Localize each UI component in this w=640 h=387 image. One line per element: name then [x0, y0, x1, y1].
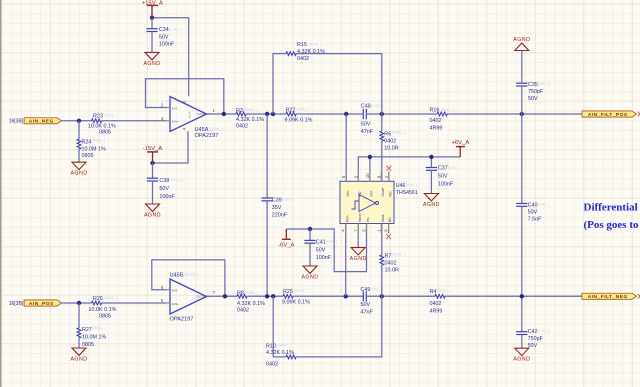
- svg-text:0805: 0805: [99, 313, 111, 319]
- svg-text:0402: 0402: [297, 56, 309, 62]
- svg-text:750pF: 750pF: [528, 89, 544, 95]
- svg-text:(C09_.): (C09_.): [538, 329, 549, 333]
- svg-text:0805: 0805: [82, 153, 94, 159]
- junction U45B output node: [223, 294, 227, 298]
- svg-text:(R046_.): (R046_.): [244, 108, 257, 112]
- svg-text:R8: R8: [237, 291, 244, 297]
- svg-text:C48: C48: [361, 104, 371, 110]
- ground AGND below U46 pin 7: [350, 248, 367, 262]
- svg-text:10.0K 0.1%: 10.0K 0.1%: [88, 123, 116, 129]
- svg-text:AGND: AGND: [423, 202, 440, 208]
- svg-text:0402: 0402: [430, 301, 442, 307]
- svg-text:IN B+: IN B+: [172, 302, 179, 306]
- svg-text:R10: R10: [266, 344, 276, 350]
- wire R4 to port AIN_FILT_NEG: [445, 295, 582, 297]
- svg-text:0402: 0402: [385, 261, 397, 267]
- svg-text:AIN_NEG: AIN_NEG: [29, 119, 54, 125]
- svg-text:OPA2197: OPA2197: [170, 316, 194, 322]
- svg-text:4R99: 4R99: [430, 308, 443, 314]
- svg-text:NC: NC: [388, 191, 392, 197]
- svg-text:4.32K 0.1%: 4.32K 0.1%: [297, 49, 325, 55]
- ground AGND below C38: [144, 204, 161, 218]
- capacitor C34: [146, 18, 182, 53]
- junction node AIN_POS: [77, 301, 81, 305]
- svg-text:(O31B_.): (O31B_.): [185, 273, 199, 277]
- svg-text:4R99: 4R99: [430, 125, 443, 131]
- wire C48 to R16: [366, 113, 437, 115]
- junction -15V_A node: [150, 161, 154, 165]
- junction Vs+ node: [368, 155, 372, 159]
- svg-text:Vs+: Vs+: [370, 190, 374, 196]
- junction node C39 bottom: [265, 294, 269, 298]
- svg-text:Vs-: Vs-: [366, 216, 370, 222]
- svg-text:+15V_A: +15V_A: [142, 0, 163, 6]
- svg-text:10.0M 1%: 10.0M 1%: [82, 146, 106, 152]
- wire R22 to C48: [296, 113, 363, 115]
- svg-text:AGND: AGND: [144, 212, 161, 218]
- svg-text:(C031_.): (C031_.): [169, 27, 182, 31]
- capacitor C39: [262, 114, 294, 296]
- svg-text:V+ V-: V+ V-: [188, 111, 192, 118]
- junction node to R10: [271, 294, 275, 298]
- svg-text:C40: C40: [528, 202, 538, 208]
- svg-text:(R046_.): (R046_.): [105, 114, 118, 118]
- svg-text:C35: C35: [528, 82, 538, 88]
- wire port AIN_NEG to R23: [62, 120, 92, 122]
- svg-text:R27: R27: [82, 327, 92, 333]
- svg-text:0402: 0402: [266, 362, 278, 368]
- wire R23 to U45A pin 3: [102, 120, 167, 122]
- port AIN_POS: [24, 300, 61, 307]
- svg-text:9.09K 0.1%: 9.09K 0.1%: [285, 118, 313, 124]
- svg-text:R6: R6: [384, 132, 391, 138]
- svg-text:0402: 0402: [384, 139, 396, 145]
- wire R25 to C49: [293, 295, 363, 297]
- svg-text:(R046_.): (R046_.): [92, 138, 105, 142]
- power +6V_A: [451, 140, 469, 157]
- svg-text:(R046_.): (R046_.): [105, 296, 118, 300]
- svg-text:(R046_.): (R046_.): [392, 253, 405, 257]
- junction node to C39: [265, 112, 269, 116]
- svg-text:IN A+: IN A+: [172, 120, 179, 124]
- svg-text:C37: C37: [438, 166, 448, 172]
- op-amp U45B OPA2197: [161, 272, 216, 322]
- wire +6V_A rail to U46 pin 3: [358, 157, 460, 181]
- capacitor C35: [516, 51, 550, 115]
- svg-text:U45B: U45B: [170, 272, 184, 278]
- wire U45B output: [207, 295, 238, 297]
- resistor R27: [77, 303, 106, 348]
- svg-text:4.32K 0.1%: 4.32K 0.1%: [266, 350, 294, 356]
- svg-text:750pF: 750pF: [528, 336, 544, 342]
- ground AGND below C34: [143, 52, 160, 66]
- svg-text:R4: R4: [430, 289, 437, 295]
- wire R26 to U45B pin 5: [102, 302, 167, 304]
- U46 pin numbers: [341, 173, 389, 232]
- junction node to U46 pin 6: [344, 112, 348, 116]
- wire C49 to R4: [366, 295, 435, 297]
- svg-text:(C08_.): (C08_.): [538, 203, 549, 207]
- svg-text:R24: R24: [82, 140, 92, 146]
- svg-text:Vocm: Vocm: [358, 213, 362, 222]
- svg-text:7.5nF: 7.5nF: [528, 216, 542, 222]
- wire U45A feedback loop: [146, 79, 224, 114]
- ground AGND below C37: [423, 194, 440, 208]
- svg-text:NC: NC: [388, 217, 392, 223]
- wire bottom rail to U46 pin 4: [345, 224, 347, 297]
- svg-text:(R046_.): (R046_.): [297, 108, 310, 112]
- svg-text:AIN_POS: AIN_POS: [29, 301, 54, 307]
- power +15V_A: [142, 0, 163, 17]
- svg-text:50V: 50V: [528, 96, 538, 102]
- svg-text:AGND: AGND: [143, 61, 160, 67]
- svg-text:Vin-: Vin-: [346, 189, 350, 196]
- svg-text:(R046_.): (R046_.): [278, 344, 291, 348]
- svg-text:10.0K 0.1%: 10.0K 0.1%: [89, 307, 117, 313]
- svg-text:50V: 50V: [438, 174, 448, 180]
- wire U46 pin 7 Vocm to ground: [357, 224, 359, 248]
- svg-text:10.0R: 10.0R: [385, 268, 399, 274]
- svg-text:9.09K 0.1%: 9.09K 0.1%: [282, 300, 310, 306]
- resistor R7: [380, 224, 405, 297]
- port AIN_FILT_POS: [582, 111, 640, 118]
- svg-text:OUT A: OUT A: [196, 112, 204, 116]
- capacitor C49: [361, 287, 383, 316]
- wire U45A output: [207, 113, 237, 115]
- svg-text:100nF: 100nF: [316, 255, 332, 261]
- wire port AIN_POS to R26: [62, 302, 92, 304]
- svg-text:AGND: AGND: [301, 274, 318, 280]
- svg-text:C39: C39: [272, 197, 282, 203]
- junction output node NEG: [520, 294, 524, 298]
- svg-text:(R046_.): (R046_.): [245, 291, 258, 295]
- svg-text:Vout+: Vout+: [381, 187, 385, 196]
- svg-text:(C04_.): (C04_.): [371, 287, 382, 291]
- svg-text:0402: 0402: [237, 308, 249, 314]
- svg-text:(C07_.): (C07_.): [539, 82, 550, 86]
- svg-text:IN B-: IN B-: [172, 289, 178, 293]
- svg-text:AIN_FILT_NEG: AIN_FILT_NEG: [588, 294, 628, 300]
- svg-text:C34: C34: [159, 27, 169, 33]
- port AIN_NEG: [24, 118, 61, 125]
- svg-text:R3: R3: [236, 108, 243, 114]
- svg-text:(R046_.): (R046_.): [392, 131, 405, 135]
- power -6V_A: [278, 229, 294, 248]
- svg-text:IN A-: IN A-: [172, 106, 178, 110]
- capacitor C41: [304, 229, 337, 266]
- svg-text:0402: 0402: [430, 118, 442, 124]
- svg-text:10.0R: 10.0R: [384, 146, 398, 152]
- wire +6V_A rail to U46 pin 10: [369, 157, 371, 181]
- capacitor C38: [147, 163, 183, 204]
- svg-text:16[3B]: 16[3B]: [9, 119, 24, 125]
- svg-text:U46: U46: [396, 183, 406, 189]
- svg-text:Vin+: Vin+: [345, 215, 349, 222]
- svg-text:OUT B: OUT B: [196, 295, 204, 299]
- svg-text:-6V_A: -6V_A: [278, 242, 294, 248]
- resistor R23: [88, 113, 118, 135]
- svg-text:C41: C41: [316, 239, 326, 245]
- svg-text:(C05_.): (C05_.): [448, 166, 459, 170]
- ground AGND below C41: [301, 266, 318, 280]
- junction C41 node: [308, 227, 312, 231]
- svg-text:(R046_.): (R046_.): [441, 108, 454, 112]
- svg-text:(R046_.): (R046_.): [295, 289, 308, 293]
- svg-text:AIN_FILT_POS: AIN_FILT_POS: [588, 112, 628, 118]
- svg-text:47nF: 47nF: [361, 310, 374, 316]
- port AIN_FILT_NEG: [582, 293, 640, 300]
- svg-text:(T04_.): (T04_.): [407, 183, 418, 187]
- svg-text:+6V_A: +6V_A: [451, 140, 469, 146]
- resistor R26: [89, 296, 118, 320]
- capacitor C40: [516, 114, 549, 296]
- svg-text:R7: R7: [385, 254, 392, 260]
- svg-text:50V: 50V: [159, 186, 169, 192]
- power -15V_A: [143, 146, 163, 163]
- svg-text:4.32K 0.1%: 4.32K 0.1%: [237, 301, 265, 307]
- svg-text:C49: C49: [361, 287, 371, 293]
- wire top rail to U46 pin 6: [345, 114, 347, 181]
- svg-text:OPA2197: OPA2197: [195, 133, 219, 139]
- svg-text:AGND: AGND: [513, 357, 530, 363]
- wire R8 to R25: [247, 295, 283, 297]
- capacitor C42: [516, 296, 549, 349]
- svg-text:Vout-: Vout-: [381, 213, 385, 222]
- svg-text:50V: 50V: [361, 302, 371, 308]
- junction U45A output node: [222, 112, 226, 116]
- svg-text:(R046_.): (R046_.): [309, 42, 322, 46]
- svg-text:R23: R23: [93, 113, 103, 119]
- resistor R22: [285, 107, 313, 123]
- svg-text:100nF: 100nF: [438, 181, 454, 187]
- wire -6V_A rail to U46 pin 5: [286, 224, 366, 272]
- svg-text:C42: C42: [528, 329, 538, 335]
- wire R16 to port AIN_FILT_POS: [447, 113, 582, 115]
- svg-text:(C031_.): (C031_.): [170, 178, 183, 182]
- op-amp U46 THS4561: [340, 181, 418, 223]
- svg-text:50V: 50V: [316, 247, 326, 253]
- wire R3 to R22: [246, 113, 286, 115]
- svg-text:(Pos goes to AD: (Pos goes to AD: [584, 219, 640, 231]
- resistor R25: [282, 289, 310, 306]
- svg-text:0805: 0805: [82, 342, 94, 348]
- svg-text:AGND: AGND: [70, 171, 87, 177]
- svg-text:PD: PD: [358, 191, 362, 196]
- ground AGND below R24: [70, 162, 87, 176]
- junction node to R15: [271, 112, 275, 116]
- junction output node POS: [520, 112, 524, 116]
- svg-text:50V: 50V: [159, 34, 169, 40]
- sheet entry label 16[3B]: [9, 119, 24, 125]
- svg-text:10.0M 1%: 10.0M 1%: [82, 335, 106, 341]
- svg-text:220nF: 220nF: [272, 212, 288, 218]
- svg-text:AGND: AGND: [350, 256, 367, 262]
- junction filter node NEG: [380, 294, 384, 298]
- ground AGND below R27: [70, 348, 87, 362]
- svg-text:(R046_.): (R046_.): [93, 326, 106, 330]
- resistor R6: [380, 114, 405, 181]
- junction +15V_A node: [150, 16, 154, 20]
- wire U45A pin 4 to -15V_A rail: [153, 131, 189, 163]
- resistor R15: [273, 42, 382, 114]
- U46 pin 8 no-connect: [386, 224, 391, 239]
- svg-text:100nF: 100nF: [159, 194, 175, 200]
- resistor R16: [430, 108, 455, 132]
- svg-text:R16: R16: [430, 108, 440, 114]
- U46 pin 2 no-connect: [386, 166, 391, 182]
- junction node to U46 pin 4: [344, 294, 348, 298]
- svg-text:R25: R25: [283, 289, 293, 295]
- svg-text:(C03_.): (C03_.): [326, 240, 337, 244]
- svg-text:AGND: AGND: [513, 37, 530, 43]
- svg-text:16[3B]: 16[3B]: [9, 301, 24, 307]
- svg-text:R22: R22: [286, 107, 296, 113]
- op-amp U45A OPA2197: [161, 97, 224, 139]
- svg-text:35V: 35V: [272, 205, 282, 211]
- svg-text:Differential Amp: Differential Amp: [584, 201, 640, 213]
- ground AGND below C42: [513, 348, 530, 362]
- svg-text:100nF: 100nF: [159, 42, 175, 48]
- svg-text:-15V_A: -15V_A: [143, 146, 163, 152]
- junction node AIN_NEG: [77, 119, 81, 123]
- U46 pin names: [345, 187, 392, 222]
- resistor R24: [77, 121, 106, 162]
- svg-text:THS4561: THS4561: [396, 190, 418, 196]
- resistor R8: [237, 291, 265, 314]
- svg-text:50V: 50V: [528, 209, 538, 215]
- junction filter node POS: [380, 112, 384, 116]
- svg-text:0402: 0402: [236, 124, 248, 130]
- sheet entry label 16[3B] lower: [9, 301, 24, 307]
- svg-text:4.32K 0.1%: 4.32K 0.1%: [236, 117, 264, 123]
- svg-text:(O31A_.): (O31A_.): [210, 127, 224, 131]
- capacitor C48: [361, 104, 384, 136]
- capacitor C37: [426, 157, 460, 194]
- svg-text:47nF: 47nF: [361, 129, 374, 135]
- svg-text:50V: 50V: [361, 122, 371, 128]
- svg-text:0805: 0805: [99, 130, 111, 136]
- junction C37 node: [429, 155, 433, 159]
- svg-text:R26: R26: [93, 296, 103, 302]
- wire U45B feedback loop: [152, 260, 225, 296]
- svg-text:(C06_.): (C06_.): [282, 198, 293, 202]
- note text Differential: [584, 201, 640, 231]
- svg-text:10: 10: [365, 173, 370, 178]
- resistor R3: [236, 108, 264, 130]
- resistor R10: [266, 296, 382, 367]
- ground AGND above C35: [513, 37, 530, 50]
- svg-text:R15: R15: [297, 42, 307, 48]
- U46 pin stubs: [346, 171, 382, 233]
- wire U45A pin 8 to +15V_A rail: [152, 18, 189, 97]
- svg-text:C38: C38: [159, 178, 169, 184]
- svg-text:(R046_.): (R046_.): [438, 289, 451, 293]
- resistor R4: [430, 289, 451, 314]
- svg-text:AGND: AGND: [70, 356, 87, 362]
